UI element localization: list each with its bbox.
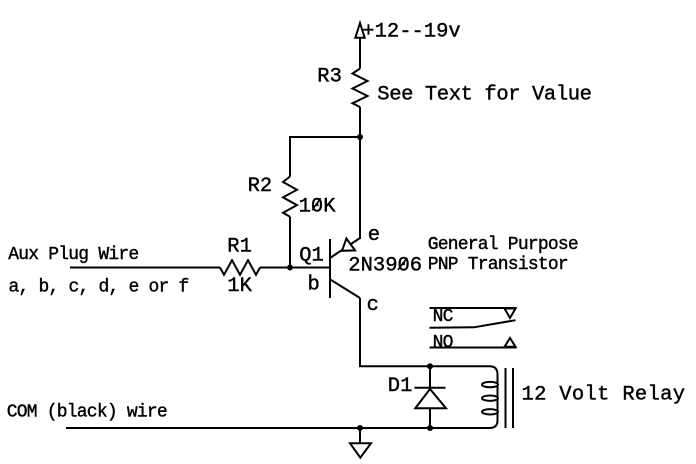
relay NC terminal triangle [505,309,516,319]
svg-text:R3: R3 [317,65,342,88]
relay core bar 1 [505,368,507,428]
wire junction to R2 top [290,137,360,177]
node junction R2/base [287,265,293,271]
wire R3 bottom to emitter (vertical) [359,107,361,239]
svg-text:b: b [308,274,320,297]
slashed zero in 2N3906 [398,258,407,270]
node junction R3/R2/emitter [357,134,363,140]
transistor Q1 emitter arrow [342,239,355,251]
resistor R1 [220,260,260,275]
relay coil right side with rounded corners [490,366,498,428]
relay coil loop 1 [482,382,498,387]
svg-text:10K: 10K [299,195,337,218]
svg-text:General Purpose: General Purpose [428,235,578,255]
svg-text:c: c [367,294,379,317]
wire R2 bottom to base wire [289,217,291,268]
relay coil loop 3 [482,409,498,414]
slashed zero in 10K [312,198,320,210]
svg-text:D1: D1 [388,375,413,398]
svg-text:a, b, c, d, e or f: a, b, c, d, e or f [9,278,189,298]
svg-text:NC: NC [433,307,454,327]
relay core bar 2 [512,368,514,428]
relay NO contact line [430,347,517,349]
svg-text:Aux Plug Wire: Aux Plug Wire [8,245,138,265]
svg-text:R1: R1 [227,236,252,259]
node D1 bottom junction [427,425,433,431]
svg-text:2N3906: 2N3906 [348,255,422,278]
svg-text:NO: NO [433,333,453,353]
wire input to R1 [70,267,220,269]
resistor R3 [353,69,368,108]
svg-text:12 Volt Relay: 12 Volt Relay [522,384,686,407]
relay coil loop 2 [482,396,498,401]
svg-text:1K: 1K [227,275,252,298]
node D1 top junction [427,363,433,369]
wire COM (bottom rail) [66,427,490,429]
svg-text:+12--19v: +12--19v [362,20,460,43]
transistor Q1 collector lead [330,279,360,298]
power terminal arrow +12--19v [355,23,364,69]
svg-text:e: e [368,224,380,247]
svg-text:Q1: Q1 [299,245,324,268]
relay NO terminal triangle [505,338,516,347]
transistor Q1 base bar [329,239,331,298]
relay NC contact line [430,307,517,309]
ground [350,428,371,458]
svg-text:See Text for Value: See Text for Value [377,83,591,106]
relay common arm [430,320,516,328]
resistor R2 [283,177,297,217]
svg-text:COM (black) wire: COM (black) wire [7,403,167,423]
diode D1 [415,366,447,428]
transistor Q1 emitter lead [330,238,360,258]
svg-text:R2: R2 [248,175,273,198]
node ground junction [357,425,363,431]
wire collector down and to relay [360,298,490,366]
svg-text:PNP Transistor: PNP Transistor [428,255,568,275]
wire R1 to Q1 base [260,267,330,269]
